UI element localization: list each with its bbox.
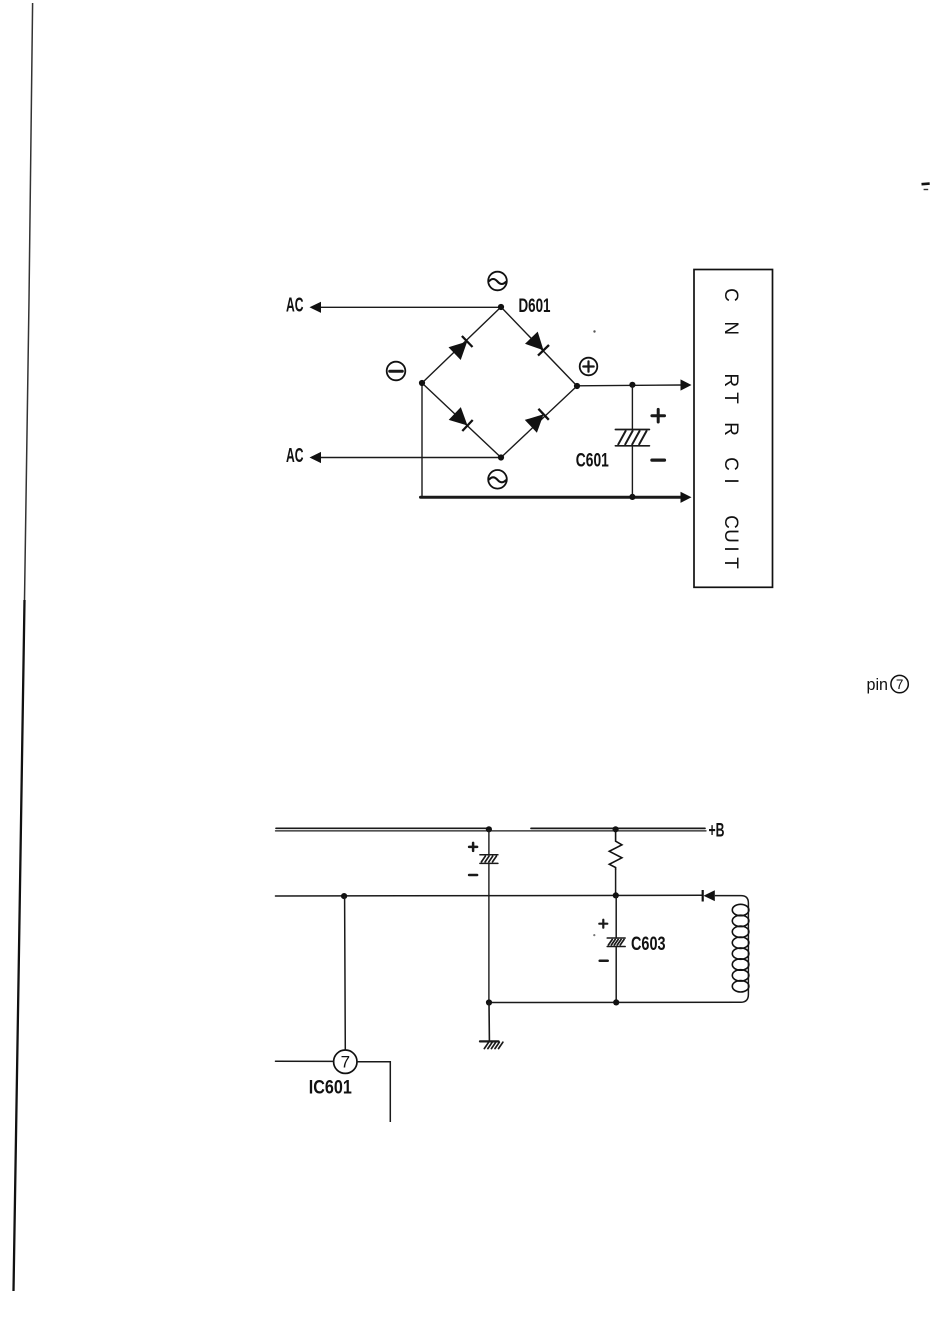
svg-text:T: T — [720, 557, 741, 569]
wire C601 leads — [631, 385, 633, 497]
wire bridge diamond — [422, 307, 577, 458]
wire C603 leads — [615, 896, 617, 1002]
svg-text:7: 7 — [896, 677, 904, 692]
svg-text:7: 7 — [341, 1053, 350, 1072]
tiny ink speck near bridge — [593, 330, 595, 332]
svg-text:C: C — [720, 457, 741, 471]
diode D601-2 (T to R) — [525, 332, 549, 356]
ground — [480, 1003, 503, 1049]
capacitor C603 — [607, 938, 625, 947]
AC source symbol bottom — [488, 470, 507, 489]
tiny ink speck near C603 — [593, 934, 595, 936]
C603 plus — [599, 920, 607, 928]
junction +B / C602 — [486, 826, 492, 832]
svg-text:N: N — [720, 321, 741, 335]
cap plus — [469, 843, 477, 851]
svg-text:IC601: IC601 — [309, 1078, 352, 1099]
node top (bridge) — [498, 304, 504, 310]
svg-text:AC: AC — [286, 295, 304, 317]
plus terminal symbol — [580, 358, 598, 376]
node left (bridge) — [419, 380, 425, 386]
coil (flyback winding) — [732, 904, 749, 992]
box CRT circuit — [694, 270, 773, 588]
left page-edge scan line — [14, 3, 33, 1291]
C603 minus — [600, 959, 608, 962]
C601 plus — [652, 409, 665, 422]
wire AC bottom — [319, 457, 501, 459]
svg-text:C601: C601 — [576, 451, 609, 472]
wire minus-node down — [421, 383, 423, 497]
wire AC top — [319, 306, 501, 308]
AC source symbol top — [488, 272, 507, 291]
arrow into box top — [681, 379, 692, 390]
junction rail / C603 — [613, 892, 619, 898]
wire bottom rail to circuit box (thick) — [421, 496, 683, 499]
wire second rail — [276, 894, 703, 897]
resistor (unlabeled) — [609, 830, 622, 896]
wire bottom rail (lower circuit) — [489, 1001, 741, 1003]
junction C601 top — [629, 382, 635, 388]
svg-text:C: C — [720, 288, 741, 302]
svg-text:C: C — [720, 515, 741, 529]
capacitor (filter, unlabeled) — [480, 855, 498, 864]
junction bottom/C603 — [613, 999, 619, 1005]
arrow AC bottom — [310, 452, 322, 463]
wire right of pin, corner down — [357, 1062, 390, 1122]
label pin 7 — [867, 675, 909, 694]
wire diode to coil, right side with corners — [715, 896, 749, 1003]
svg-text:I: I — [720, 546, 741, 551]
wire plus-node to circuit box — [577, 384, 682, 387]
cap minus — [469, 874, 477, 877]
junction +B / resistor — [613, 826, 619, 832]
diode (to coil, cathode left) — [703, 890, 715, 902]
svg-text:C603: C603 — [631, 934, 666, 955]
arrow AC top — [310, 302, 322, 313]
C601 minus — [652, 459, 665, 462]
wire left of pin — [276, 1060, 334, 1062]
svg-text:I: I — [720, 478, 741, 483]
diode D601-4 (B to R) — [525, 409, 549, 433]
minus terminal symbol — [387, 362, 406, 381]
IC601 pin 7 circle — [334, 1050, 357, 1073]
svg-text:+B: +B — [709, 821, 725, 842]
svg-text:R: R — [720, 373, 741, 387]
diode D601-1 (L to T) — [449, 336, 473, 360]
node right (bridge) — [574, 383, 580, 389]
box label (rotated letters) — [720, 288, 741, 569]
capacitor C601 — [615, 430, 649, 446]
svg-text:AC: AC — [286, 445, 304, 467]
junction C601 bottom — [629, 494, 635, 500]
diode D601-3 (L to B) — [449, 407, 473, 431]
wire +B rail — [276, 828, 707, 831]
svg-text:pin: pin — [867, 675, 889, 694]
node bottom (bridge) — [498, 454, 504, 460]
wire to IC601 pin — [344, 896, 347, 1050]
svg-text:D601: D601 — [519, 296, 551, 317]
junction rail / IC601 — [341, 893, 347, 899]
ink specks top right — [921, 182, 929, 190]
wire capacitor C602 leads — [488, 830, 490, 1003]
svg-text:T: T — [720, 392, 741, 404]
svg-text:R: R — [720, 422, 741, 436]
junction bottom/ground — [486, 999, 492, 1005]
arrow into box bottom — [681, 492, 692, 503]
svg-text:U: U — [720, 529, 741, 543]
